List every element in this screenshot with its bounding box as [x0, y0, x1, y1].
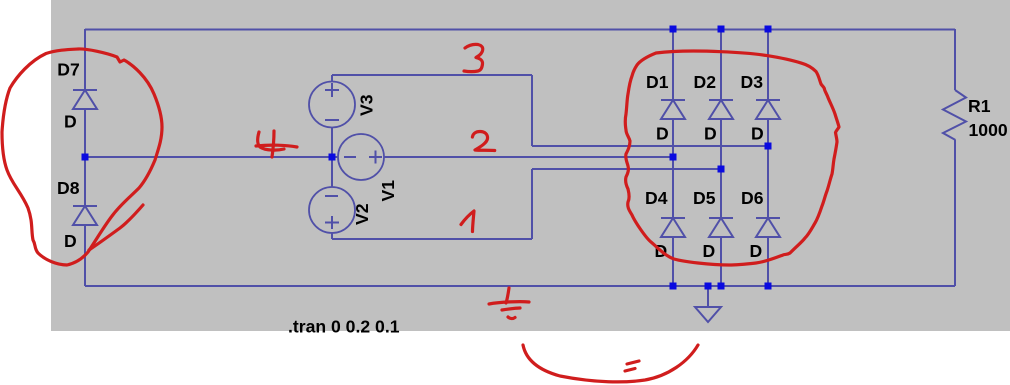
- red annotation loop around D7/D8: [2, 49, 162, 265]
- svg-text:D8: D8: [57, 178, 80, 198]
- diode D8: [73, 206, 97, 225]
- ground: [695, 307, 721, 322]
- wire phase 1 bottom: [332, 238, 532, 240]
- wire top bus: [85, 29, 955, 31]
- wire bridge column 2: [720, 29, 722, 286]
- wire right branch vertical (bottom): [954, 140, 956, 286]
- wire left branch vertical: [84, 29, 86, 286]
- node bottom col3: [765, 283, 772, 290]
- red annotation ground mark: [506, 288, 509, 303]
- node top bus col2: [718, 26, 725, 33]
- svg-text:D: D: [64, 112, 77, 132]
- voltage source V2: [309, 187, 355, 233]
- wire bridge column 3: [767, 29, 769, 286]
- node bottom ground: [705, 283, 712, 290]
- svg-text:D3: D3: [741, 72, 764, 92]
- svg-text:D: D: [656, 124, 669, 144]
- svg-text:V3: V3: [357, 94, 377, 116]
- red annotation numeral 2: [472, 132, 494, 151]
- red annotation loop tail: [89, 205, 143, 250]
- svg-text:V1: V1: [378, 180, 398, 202]
- svg-text:D2: D2: [694, 72, 717, 92]
- diode D2: [709, 100, 733, 119]
- diode D3: [756, 100, 780, 119]
- wire phase 3 top: [332, 74, 532, 76]
- voltage source V1: [338, 134, 384, 180]
- wire V-source chain vertical: [331, 127, 333, 187]
- svg-text:D: D: [64, 231, 77, 251]
- wire phase 3 vertical: [531, 75, 533, 146]
- red annotation bottom arc: [523, 345, 698, 382]
- node bottom col2: [718, 283, 725, 290]
- diode D6: [756, 218, 780, 237]
- svg-text:D5: D5: [693, 188, 716, 208]
- svg-text:D: D: [750, 241, 763, 261]
- diode D1: [661, 100, 685, 119]
- voltage source V3: [309, 82, 355, 128]
- red annotation numeral 4: [258, 132, 284, 150]
- node junction left: [82, 154, 89, 161]
- node mid col1: [670, 154, 677, 161]
- wire right branch vertical (top): [954, 29, 956, 90]
- svg-text:D4: D4: [645, 188, 668, 208]
- red annotation numeral 3: [464, 44, 483, 71]
- svg-text:D6: D6: [741, 188, 764, 208]
- diode D4: [661, 218, 685, 237]
- wire phase 1 vertical: [531, 169, 533, 239]
- node junction sources: [329, 154, 336, 161]
- wire V2 bottom lead: [331, 232, 333, 239]
- wire bottom bus: [85, 285, 955, 287]
- svg-text:D7: D7: [57, 60, 80, 80]
- wire mid-left horizontal (node 4): [85, 156, 338, 158]
- resistor R1: [943, 90, 966, 140]
- node top bus col3: [765, 26, 772, 33]
- svg-text:D: D: [751, 124, 764, 144]
- node bottom col1: [670, 283, 677, 290]
- svg-text:D: D: [703, 241, 716, 261]
- red annotation small mark: [627, 361, 639, 364]
- svg-text:V2: V2: [352, 203, 372, 225]
- wire phase 1 to bridge: [532, 168, 721, 170]
- svg-text:R1: R1: [968, 96, 991, 116]
- node mid col2: [718, 166, 725, 173]
- red annotation numeral 1: [461, 211, 474, 232]
- wire bridge column 1: [672, 29, 674, 286]
- node mid col3: [765, 143, 772, 150]
- wire ground lead: [707, 286, 709, 307]
- svg-text:D: D: [704, 124, 717, 144]
- wire V3 top lead: [331, 75, 333, 82]
- wire phase 2: [384, 156, 673, 158]
- svg-text:1000: 1000: [969, 120, 1008, 140]
- svg-text:.tran 0 0.2 0.1: .tran 0 0.2 0.1: [288, 317, 400, 337]
- svg-text:D1: D1: [646, 72, 669, 92]
- red annotation loop around bridge: [625, 51, 839, 265]
- wire phase 3 to bridge: [532, 145, 768, 147]
- diode D5: [709, 218, 733, 237]
- node top bus col1: [670, 26, 677, 33]
- diode D7: [73, 90, 97, 109]
